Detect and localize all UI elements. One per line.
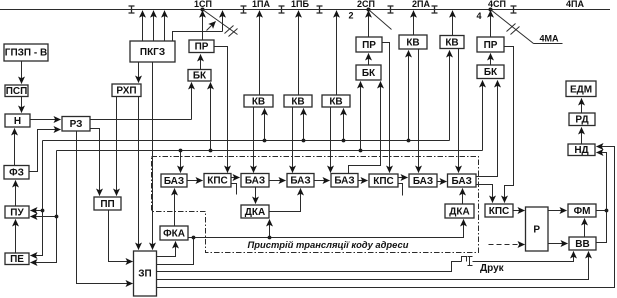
svg-text:РД: РД: [575, 115, 588, 126]
box KPS3: [485, 204, 513, 217]
wire PKGZ to RXP: [138, 63, 140, 83]
svg-text:ПР: ПР: [484, 40, 498, 51]
wire switch 1SP blade diagonal: [203, 10, 238, 35]
enclosure address-code translator boundary: [152, 157, 479, 253]
wire FZ to RZ: [30, 130, 61, 172]
wire GPZP to PSP: [21, 62, 23, 84]
box PE: [5, 253, 29, 265]
svg-text:ЕДМ: ЕДМ: [570, 84, 592, 95]
wire bus2 left drop to PU and PE: [31, 151, 57, 263]
svg-text:4ПА: 4ПА: [566, 0, 584, 9]
box BAZ3: [287, 174, 314, 188]
wire N to RZ: [31, 119, 61, 121]
tick T7 on bus: [511, 6, 517, 13]
svg-text:ВВ: ВВ: [575, 239, 589, 250]
svg-text:1СП: 1СП: [194, 0, 212, 9]
wire BK3 to PR3: [490, 54, 492, 66]
wire dashed into R: [489, 244, 525, 246]
wire bus1 left drop to PU and PE: [31, 141, 43, 256]
wire KVb riser: [452, 11, 454, 36]
wire bus1 horizontal: [43, 140, 450, 142]
wire BAZ2 to BAZ3: [270, 180, 286, 182]
wire KV2 drop to BAZ3: [292, 108, 294, 173]
box FM: [568, 204, 596, 217]
wire PE to PU: [15, 220, 17, 254]
svg-text:БАЗ: БАЗ: [290, 176, 310, 187]
wire BK1 right feed from bus2: [210, 83, 212, 151]
wire KVa drop to BAZ5: [418, 50, 420, 173]
wire KPS2 dangling stub: [399, 184, 403, 196]
wire PR2 hook to KPS2: [383, 43, 390, 173]
wire BAZ6 stub to KPS3 left top: [477, 185, 493, 203]
svg-text:КПС: КПС: [489, 206, 510, 217]
box BK3: [477, 65, 504, 79]
svg-text:1ПА: 1ПА: [252, 0, 270, 9]
node 1SP: [201, 8, 205, 12]
svg-text:ФМ: ФМ: [574, 206, 591, 217]
svg-text:2СП: 2СП: [357, 0, 375, 9]
svg-text:ПР: ПР: [195, 42, 209, 53]
box PP: [94, 197, 121, 210]
wire PU to FZ: [15, 181, 17, 207]
svg-text:2: 2: [348, 11, 353, 21]
wire DKA1 to BAZ3: [270, 189, 301, 212]
box R: [526, 207, 549, 251]
wire RZ right to PP and BK1: [91, 119, 192, 121]
wire RZ bottom to ZP left: [77, 132, 133, 284]
wire switch 4SP blade diagonal: [491, 10, 534, 44]
svg-text:4СП: 4СП: [488, 0, 506, 9]
wire RXP to ZP: [138, 97, 140, 250]
wire KPS1 dangling stub: [232, 184, 237, 195]
box BK1: [188, 70, 211, 82]
box N: [5, 114, 30, 127]
wire BK2 to PR2: [368, 54, 370, 66]
svg-text:БАЗ: БАЗ: [245, 176, 265, 187]
svg-text:4МА: 4МА: [539, 34, 559, 44]
wire KVa riser 2PA: [413, 11, 415, 36]
box ZP: [134, 251, 157, 296]
box FZ: [4, 166, 29, 180]
wire BAZ5 to BAZ6: [438, 181, 447, 183]
box KVb: [440, 36, 464, 49]
svg-text:КВ: КВ: [329, 96, 342, 107]
wire PR3 jog to KPS3: [505, 47, 514, 203]
wire BAZ2 to DKA1: [255, 188, 257, 204]
wire DKA2 to BAZ6: [462, 189, 464, 205]
box DKA1: [241, 205, 269, 218]
wire BK2 left feed from bus2: [360, 82, 362, 151]
tick T4 on bus: [317, 6, 323, 13]
key symbol Druk contact: [462, 257, 467, 262]
wire VV to FM: [584, 219, 586, 238]
svg-text:ФКА: ФКА: [163, 228, 185, 239]
svg-text:ПУ: ПУ: [10, 207, 24, 218]
svg-text:Н: Н: [14, 116, 21, 127]
svg-text:ГПЗП - В: ГПЗП - В: [5, 48, 47, 59]
break slashes on 4SP blade: [507, 24, 520, 35]
svg-text:ПСП: ПСП: [6, 86, 28, 97]
box PKGZ: [130, 41, 175, 62]
wire KV2 feed from bus1: [303, 109, 305, 141]
svg-text:КВ: КВ: [445, 37, 458, 48]
svg-text:Друк: Друк: [480, 263, 505, 274]
svg-text:ДКА: ДКА: [449, 206, 469, 217]
box BAZ1: [161, 174, 187, 187]
box BAZ5: [409, 174, 437, 187]
wire ZP to FKA: [157, 242, 176, 257]
wire PR2 riser to 2SP node: [368, 11, 370, 38]
wire FZ to N: [14, 129, 16, 166]
box KPS2: [369, 174, 398, 187]
svg-text:ФЗ: ФЗ: [9, 168, 24, 179]
box EDM: [566, 81, 596, 97]
svg-text:КПС: КПС: [207, 176, 228, 187]
wire KPS2 stub arrow to BAZ5: [399, 177, 408, 179]
box BK2: [356, 65, 381, 80]
wire ND to RD: [581, 128, 583, 145]
wire PR1 riser to 1SP node: [202, 11, 204, 41]
wire bus1 right end feed KVb: [449, 51, 451, 141]
wire FKA to BAZ1: [174, 189, 176, 227]
wire KPS3 to R: [514, 210, 525, 212]
svg-text:Пристрій трансляції коду адрес: Пристрій трансляції коду адреси: [248, 239, 409, 250]
wire bus2 drop to BAZ1: [180, 151, 182, 173]
wire ZP Druk line to VV: [157, 262, 462, 272]
wire switch 1SP wiper arrow: [207, 22, 216, 31]
wire FM VV net to ND lower: [597, 153, 607, 243]
wire riser to bus at 1PA side: [222, 11, 224, 32]
wire RXP to PP: [116, 97, 118, 196]
svg-text:ЗП: ЗП: [138, 269, 151, 280]
break slashes on 1SP blade: [225, 26, 238, 37]
tick T5 on bus: [388, 6, 394, 13]
wire PKGZ to ZP: [152, 63, 154, 250]
wire switch 2SP blade diagonal: [369, 10, 392, 30]
svg-text:РЗ: РЗ: [70, 119, 83, 130]
box PR1: [189, 40, 214, 53]
svg-text:БК: БК: [362, 68, 376, 79]
wire KV1 riser: [259, 11, 261, 96]
wire ZP to ND via right edge: [157, 147, 615, 288]
wire PKGZ riser 3: [164, 11, 166, 42]
wire BAZ3 to BAZ4: [315, 180, 330, 182]
wire KV3 feed from bus1: [343, 109, 345, 141]
box PU: [5, 206, 29, 218]
box GPZP-V: [4, 44, 48, 61]
wire BAZ4 to KPS2: [359, 180, 368, 182]
wire PKGZ riser 1: [142, 11, 144, 42]
svg-text:ПП: ПП: [100, 199, 114, 210]
wire PKGZ riser 2: [153, 11, 155, 42]
box DKA2: [445, 204, 474, 218]
svg-text:НД: НД: [574, 145, 588, 156]
wire BAZ6 stub to BK3 right: [477, 81, 498, 177]
box RD: [569, 113, 595, 126]
box KVa: [399, 35, 427, 49]
tick T3 on bus: [279, 6, 285, 13]
box PSP: [5, 85, 28, 97]
svg-text:БАЗ: БАЗ: [452, 176, 472, 187]
box RZ: [62, 117, 90, 132]
tick T6 on bus: [432, 6, 438, 13]
box BAZ6: [448, 174, 477, 187]
wire BK1 to PR1: [200, 55, 202, 70]
tick T2 on bus: [241, 6, 247, 13]
wire KV1 feed from bus1: [264, 109, 266, 141]
svg-text:БК: БК: [193, 71, 207, 82]
svg-text:КПС: КПС: [373, 176, 394, 187]
wire KVa feed from bus1: [408, 51, 410, 141]
svg-text:БАЗ: БАЗ: [334, 176, 354, 187]
svg-text:КВ: КВ: [291, 96, 304, 107]
wire KV3 riser: [336, 11, 338, 96]
wire bus2 right end feed BK3 left: [482, 81, 484, 151]
box RXP: [112, 84, 141, 97]
box KV1: [244, 95, 273, 107]
wire PSP to N: [21, 97, 23, 113]
wire KV2 riser: [298, 11, 300, 96]
box FKA: [160, 226, 188, 240]
wire ZP to VV bottom: [157, 252, 589, 280]
box BAZ4: [331, 174, 358, 188]
svg-text:4: 4: [476, 11, 481, 21]
wire KVb drop to BAZ6: [458, 49, 460, 173]
box PR3: [477, 37, 504, 52]
svg-text:БАЗ: БАЗ: [413, 176, 433, 187]
box PR2: [356, 37, 382, 52]
svg-text:ДКА: ДКА: [245, 207, 265, 218]
box KV3: [322, 95, 350, 107]
wire PR1 hook to KPS1: [215, 47, 228, 173]
svg-text:Р: Р: [533, 225, 540, 236]
wire trunk bus line: [0, 9, 610, 11]
wire 1SP horizontal link: [173, 32, 223, 42]
wire KV3 drop to BAZ4: [330, 108, 332, 173]
svg-text:КВ: КВ: [406, 37, 419, 48]
svg-text:ПР: ПР: [362, 40, 376, 51]
svg-text:КВ: КВ: [252, 96, 265, 107]
wire KV1 drop to BAZ2: [253, 108, 255, 173]
wire PR3 riser to 4SP node: [490, 11, 492, 38]
svg-text:БАЗ: БАЗ: [164, 176, 184, 187]
box BAZ2: [241, 174, 269, 188]
wire PP to ZP: [109, 211, 133, 262]
box ND: [568, 144, 595, 156]
svg-text:БК: БК: [484, 67, 498, 78]
tick T1 on bus: [129, 6, 135, 13]
svg-text:2ПА: 2ПА: [412, 0, 430, 9]
box VV: [569, 237, 596, 250]
svg-text:ПЕ: ПЕ: [10, 254, 24, 265]
wire R to VV: [549, 243, 568, 245]
wire FKA right distribution to DKA1 DKA2 and ZP: [189, 220, 464, 238]
box KV2: [284, 95, 312, 107]
wire bus2 horizontal: [57, 150, 483, 152]
wire R to FM: [549, 210, 567, 212]
svg-text:ПКГЗ: ПКГЗ: [140, 47, 165, 58]
wire 4MA tail: [534, 43, 563, 45]
svg-text:1ПБ: 1ПБ: [291, 0, 309, 9]
wire KPS1 stub arrow to BAZ2: [232, 177, 240, 179]
box KPS1: [204, 174, 231, 188]
wire RD to EDM: [581, 99, 583, 114]
node 2SP: [367, 8, 371, 12]
wire BAZ4 jog to BK2 right: [349, 82, 381, 175]
node 4SP: [489, 8, 493, 12]
svg-text:РХП: РХП: [116, 86, 136, 97]
wire BAZ1 to KPS1: [188, 180, 203, 182]
